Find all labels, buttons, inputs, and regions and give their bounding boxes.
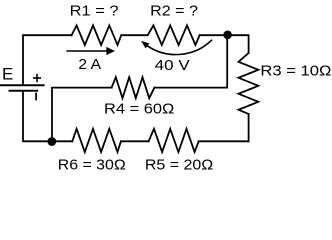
svg-text:R6 = 30Ω: R6 = 30Ω	[58, 157, 126, 174]
svg-text:R3 = 10Ω: R3 = 10Ω	[260, 62, 331, 79]
svg-text:R5 = 20Ω: R5 = 20Ω	[145, 157, 213, 174]
svg-text:E: E	[2, 65, 13, 84]
svg-text:R1 = ?: R1 = ?	[70, 2, 119, 19]
svg-text:2 A: 2 A	[78, 56, 101, 73]
svg-text:40 V: 40 V	[155, 57, 190, 74]
svg-text:R4 = 60Ω: R4 = 60Ω	[104, 101, 174, 118]
svg-text:R2 = ?: R2 = ?	[150, 2, 198, 19]
